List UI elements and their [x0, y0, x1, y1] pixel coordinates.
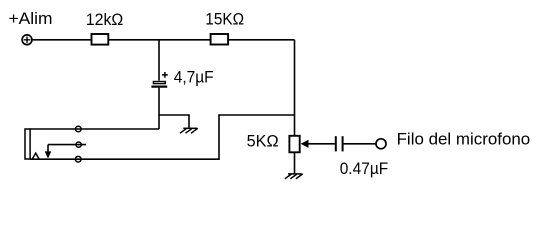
wire branch to ground — [159, 115, 189, 128]
wire capacitor C1 top lead — [158, 40, 160, 81]
ground G1 — [180, 128, 198, 133]
svg-text:0.47µF: 0.47µF — [340, 160, 389, 178]
potentiometer R3 5KΩ — [289, 136, 299, 153]
wire C2 to terminal — [344, 143, 376, 145]
svg-text:Filo del microfono: Filo del microfono — [397, 131, 531, 149]
wire R1 to R2 — [108, 39, 210, 41]
svg-text:+Alim: +Alim — [9, 10, 53, 28]
svg-text:15KΩ: 15KΩ — [205, 10, 244, 28]
wire R2 to right corner — [228, 39, 294, 41]
terminal +Alim — [22, 35, 32, 45]
wire jack bottom to pot branch — [30, 115, 295, 159]
ground G2 — [285, 174, 303, 179]
resistor R1 12kΩ — [92, 34, 109, 45]
capacitor C2 0.47µF — [336, 136, 343, 151]
connector J1 middle contact wire — [48, 144, 86, 146]
wire to jack top contact — [30, 128, 159, 130]
connector J1 switch arrow — [47, 145, 49, 152]
wire pot bottom to ground — [294, 153, 296, 174]
connector J1 jack body — [25, 129, 30, 159]
resistor R2 15KΩ — [211, 34, 229, 45]
wire terminal to R1 — [32, 39, 91, 41]
svg-text:4,7µF: 4,7µF — [174, 68, 214, 86]
svg-text:12kΩ: 12kΩ — [86, 11, 124, 29]
wire capacitor C1 bottom lead — [158, 88, 160, 129]
capacitor C1 4,7µF — [151, 72, 167, 87]
potentiometer R3 wiper arrow — [308, 143, 335, 145]
svg-text:5KΩ: 5KΩ — [247, 133, 279, 151]
connector J1 middle contact — [76, 142, 81, 147]
connector J1 tip caret — [32, 153, 39, 159]
connector J1 bottom contact — [75, 156, 81, 162]
connector J1 top contact — [76, 126, 82, 132]
terminal Filo del microfono — [376, 139, 386, 149]
wire vertical down to potentiometer — [294, 40, 296, 135]
